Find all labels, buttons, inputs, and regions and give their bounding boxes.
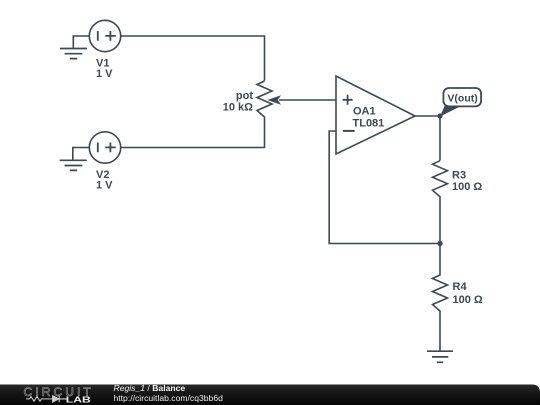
svg-text:LAB: LAB xyxy=(66,394,91,404)
svg-text:1 V: 1 V xyxy=(96,180,113,192)
svg-text:100 Ω: 100 Ω xyxy=(452,181,482,193)
svg-text:100 Ω: 100 Ω xyxy=(453,294,483,306)
svg-text:Regis_1 / Balance: Regis_1 / Balance xyxy=(114,383,186,393)
svg-text:1 V: 1 V xyxy=(96,68,113,80)
svg-text:http://circuitlab.com/cq3bb6d: http://circuitlab.com/cq3bb6d xyxy=(114,393,224,403)
svg-text:pot: pot xyxy=(236,90,253,102)
svg-text:OA1: OA1 xyxy=(353,106,376,118)
svg-text:TL081: TL081 xyxy=(353,117,385,129)
svg-text:10 kΩ: 10 kΩ xyxy=(223,102,253,114)
svg-text:R3: R3 xyxy=(452,169,466,181)
svg-text:V(out): V(out) xyxy=(447,92,477,104)
svg-text:R4: R4 xyxy=(453,281,468,293)
